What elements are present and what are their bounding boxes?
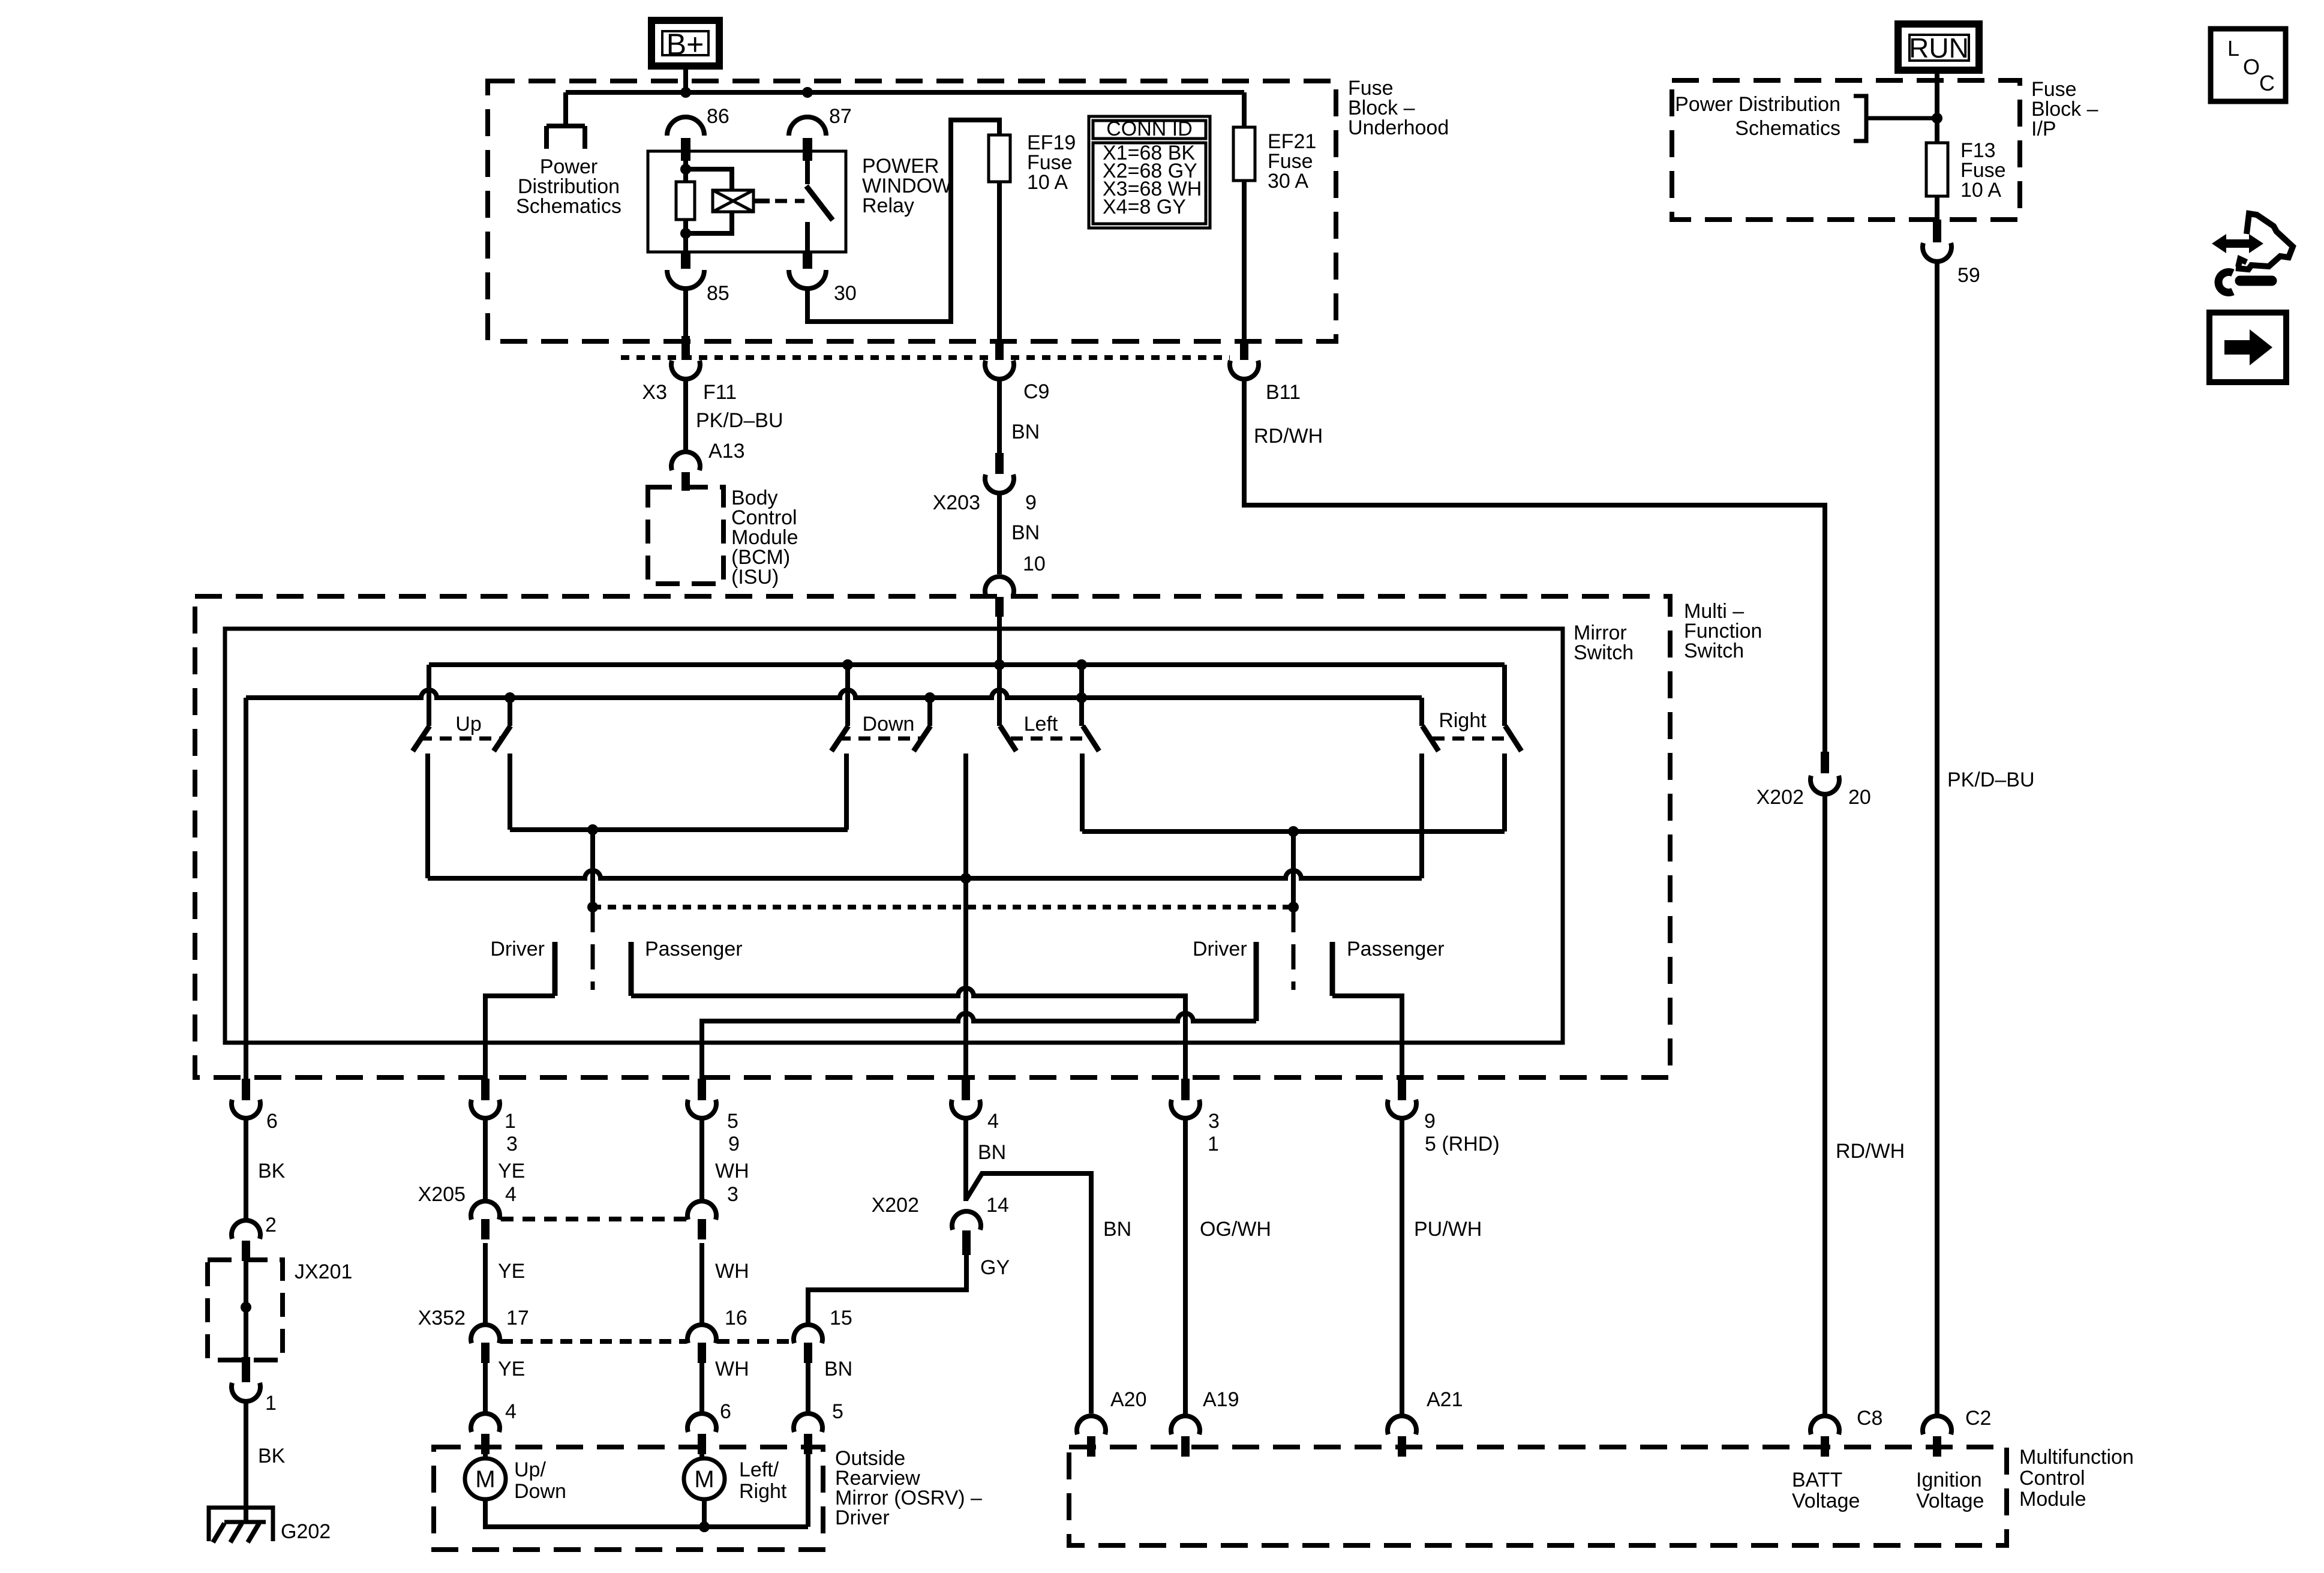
svg-text:Right: Right bbox=[1439, 709, 1487, 732]
wire common bus line lower with hops bbox=[246, 690, 1422, 698]
relay winding symbol bbox=[713, 190, 753, 212]
svg-text:BK: BK bbox=[258, 1160, 286, 1182]
svg-text:Passenger: Passenger bbox=[645, 938, 743, 960]
node motor common junction bbox=[699, 1521, 710, 1532]
svg-text:9: 9 bbox=[1025, 491, 1037, 514]
connector X3 F11 bbox=[681, 336, 690, 360]
connector X203 pin 9 bbox=[995, 453, 1004, 474]
node up-down output junction bbox=[587, 824, 598, 835]
power symbol B+ bbox=[651, 20, 719, 66]
svg-text:Driver: Driver bbox=[835, 1506, 890, 1529]
svg-text:BN: BN bbox=[1011, 521, 1040, 544]
wire JX201 to ground BK bbox=[244, 1401, 248, 1522]
connector C9 bbox=[995, 339, 1004, 360]
fuse block underhood dashed box bbox=[488, 81, 1336, 341]
wire driver 1 stub to pin 1 bbox=[553, 942, 558, 996]
svg-text:Multifunction: Multifunction bbox=[2019, 1446, 2134, 1469]
svg-text:10 A: 10 A bbox=[1960, 179, 2001, 202]
svg-text:PK/D–BU: PK/D–BU bbox=[1947, 769, 2035, 791]
svg-text:30: 30 bbox=[834, 282, 857, 305]
svg-text:BK: BK bbox=[258, 1445, 286, 1467]
svg-text:X4=8 GY: X4=8 GY bbox=[1103, 196, 1186, 218]
wire fuse EF19 to C9 bbox=[997, 182, 1002, 339]
wire left-right output drop bbox=[1291, 831, 1296, 907]
svg-text:(ISU): (ISU) bbox=[731, 566, 779, 589]
svg-text:O: O bbox=[2243, 55, 2260, 79]
svg-text:Schematics: Schematics bbox=[1735, 117, 1840, 140]
svg-text:C: C bbox=[2259, 71, 2275, 95]
svg-text:BATT: BATT bbox=[1792, 1469, 1842, 1491]
fuse F13 bbox=[1926, 143, 1948, 196]
svg-text:YE: YE bbox=[498, 1160, 525, 1182]
wire YE mid bbox=[483, 1243, 488, 1326]
wire left-right output tie bbox=[1082, 829, 1505, 834]
wire pin4 BN bbox=[963, 1118, 968, 1201]
wire relay coil bbox=[683, 151, 688, 252]
connector B11 bbox=[1240, 339, 1248, 360]
svg-text:B+: B+ bbox=[666, 28, 704, 61]
connector pin 1 bbox=[481, 1079, 490, 1100]
svg-text:X352: X352 bbox=[418, 1307, 466, 1329]
svg-text:1: 1 bbox=[505, 1110, 516, 1133]
icon double arrow bbox=[2212, 234, 2263, 253]
svg-text:C8: C8 bbox=[1857, 1407, 1882, 1430]
wire pin5 WH upper bbox=[699, 1118, 704, 1202]
wire driver 2 stub to pin 5 bbox=[1254, 942, 1259, 1021]
wire WH mid bbox=[699, 1243, 704, 1326]
svg-text:PK/D–BU: PK/D–BU bbox=[696, 409, 783, 432]
switch Up left contact bbox=[427, 665, 431, 726]
wire passenger 2 stub to pin 9 bbox=[1330, 942, 1335, 996]
wire power distribution branch bbox=[547, 92, 585, 149]
svg-text:Down: Down bbox=[863, 713, 915, 736]
svg-text:X205: X205 bbox=[418, 1183, 466, 1206]
wire ground side left bbox=[244, 698, 248, 1079]
wire through JX201 bbox=[244, 1261, 248, 1357]
svg-text:Switch: Switch bbox=[1684, 640, 1744, 662]
svg-text:YE: YE bbox=[498, 1358, 525, 1380]
svg-text:PU/WH: PU/WH bbox=[1414, 1218, 1482, 1241]
switch Left link bbox=[1011, 737, 1090, 741]
wire fuse EF21 to B11 bbox=[1242, 181, 1247, 339]
svg-text:Passenger: Passenger bbox=[1347, 938, 1445, 960]
svg-text:G202: G202 bbox=[281, 1520, 331, 1543]
reference bracket bbox=[1854, 96, 1866, 141]
svg-text:YE: YE bbox=[498, 1260, 525, 1283]
connector X202 pin 20 bbox=[1821, 752, 1829, 773]
svg-text:X202: X202 bbox=[872, 1194, 919, 1217]
connector 59 bbox=[1933, 220, 1941, 242]
switch Down left contact bbox=[845, 665, 850, 726]
multi-function switch dashed box bbox=[195, 596, 1670, 1077]
svg-text:WH: WH bbox=[715, 1358, 749, 1380]
svg-text:BN: BN bbox=[1011, 421, 1040, 443]
svg-text:Driver: Driver bbox=[490, 938, 545, 960]
body control module dashed box bbox=[648, 487, 723, 584]
switch Down link bbox=[839, 737, 921, 741]
node bus junction 86 bbox=[680, 87, 691, 98]
connector row dashed X352 bbox=[501, 1339, 686, 1344]
relay K power window box bbox=[648, 151, 846, 252]
wire WH lower bbox=[699, 1363, 704, 1414]
wire pin1 YE upper bbox=[483, 1118, 488, 1202]
svg-text:6: 6 bbox=[266, 1110, 278, 1133]
svg-text:I/P: I/P bbox=[2031, 118, 2056, 140]
svg-text:BN: BN bbox=[1103, 1218, 1131, 1241]
relay switch contact bbox=[805, 151, 810, 184]
svg-text:GY: GY bbox=[980, 1256, 1010, 1279]
fuse EF21 bbox=[1233, 127, 1255, 181]
svg-text:Down: Down bbox=[514, 1480, 566, 1503]
svg-text:C9: C9 bbox=[1023, 380, 1049, 403]
connector JX201 pin 1 bbox=[242, 1357, 250, 1382]
wire pin 10 riser bbox=[997, 617, 1002, 665]
svg-text:WH: WH bbox=[715, 1160, 749, 1182]
switch Down right contact bbox=[927, 698, 932, 726]
connector row dotted line X3-C9-B11 bbox=[621, 355, 1230, 360]
motor left-right bbox=[684, 1458, 725, 1499]
icon arrow box bbox=[2209, 313, 2286, 382]
switch Left right contact bbox=[1079, 665, 1084, 726]
svg-text:Voltage: Voltage bbox=[1792, 1490, 1860, 1512]
svg-text:3: 3 bbox=[1208, 1110, 1220, 1133]
connector pin 4 bbox=[962, 1079, 970, 1100]
svg-text:RD/WH: RD/WH bbox=[1836, 1140, 1905, 1163]
node bus junction 87 bbox=[802, 87, 813, 98]
svg-text:RD/WH: RD/WH bbox=[1254, 425, 1323, 448]
connector relay pin 85 bbox=[681, 252, 690, 269]
mirror switch box bbox=[225, 629, 1563, 1043]
svg-text:Left/: Left/ bbox=[739, 1458, 779, 1481]
svg-text:Ignition: Ignition bbox=[1916, 1469, 1982, 1491]
svg-text:JX201: JX201 bbox=[295, 1260, 352, 1283]
wire X203 to mirror switch pin 10 bbox=[997, 493, 1002, 574]
outside rearview mirror dashed box bbox=[434, 1447, 823, 1550]
svg-text:Power Distribution: Power Distribution bbox=[1675, 93, 1840, 116]
wire GY to X352-15 bbox=[808, 1255, 966, 1326]
svg-text:X202: X202 bbox=[1756, 786, 1804, 809]
node left-right output junction bbox=[1288, 826, 1299, 837]
svg-text:WH: WH bbox=[715, 1260, 749, 1283]
wire branch BN to A20 bbox=[966, 1173, 1091, 1413]
svg-text:Up/: Up/ bbox=[514, 1458, 546, 1481]
svg-text:A21: A21 bbox=[1427, 1388, 1463, 1411]
svg-text:4: 4 bbox=[505, 1400, 517, 1423]
svg-text:9: 9 bbox=[728, 1133, 740, 1155]
svg-text:5 (RHD): 5 (RHD) bbox=[1425, 1133, 1500, 1155]
connector pin 3 bbox=[1181, 1079, 1190, 1100]
svg-text:1: 1 bbox=[1208, 1133, 1219, 1155]
wire center shared contact bbox=[963, 754, 968, 878]
svg-text:M: M bbox=[694, 1466, 714, 1493]
svg-text:Schematics: Schematics bbox=[516, 195, 621, 218]
wire motor outputs common bbox=[485, 1499, 808, 1527]
svg-text:L: L bbox=[2227, 36, 2239, 61]
wire relay 30 to fuse EF19 bbox=[807, 120, 999, 322]
svg-text:15: 15 bbox=[830, 1307, 852, 1329]
wire into left-right motor bbox=[699, 1454, 704, 1459]
wire passenger 1 stub to pin 3 bbox=[629, 942, 634, 996]
node common bus junctions bbox=[505, 692, 515, 703]
node bracket junction bbox=[1932, 113, 1942, 124]
svg-text:Up: Up bbox=[455, 713, 481, 736]
wire feed bus line upper bbox=[429, 662, 1505, 667]
svg-text:86: 86 bbox=[707, 105, 729, 128]
wire pin9 PU/WH bbox=[1400, 1118, 1404, 1416]
svg-text:BN: BN bbox=[978, 1141, 1006, 1164]
wire B11 to X202-20 bbox=[1244, 379, 1825, 753]
wire X202-20 to C8 RD/WH bbox=[1822, 794, 1827, 1416]
svg-text:A20: A20 bbox=[1110, 1388, 1147, 1411]
svg-text:F11: F11 bbox=[703, 381, 737, 404]
svg-text:RUN: RUN bbox=[1909, 32, 1969, 64]
relay coil resistor bbox=[676, 182, 695, 220]
connector pin 5 bbox=[698, 1079, 706, 1100]
svg-text:14: 14 bbox=[986, 1194, 1009, 1217]
svg-text:Driver: Driver bbox=[1193, 938, 1247, 960]
icon wrench bbox=[2240, 276, 2272, 286]
svg-text:Switch: Switch bbox=[1574, 641, 1634, 664]
svg-text:3: 3 bbox=[506, 1133, 518, 1155]
svg-text:10: 10 bbox=[1023, 553, 1046, 575]
fuse EF19 bbox=[989, 135, 1010, 182]
svg-text:Control: Control bbox=[2019, 1467, 2085, 1490]
svg-text:9: 9 bbox=[1424, 1110, 1436, 1133]
switch Up link bbox=[420, 737, 503, 741]
switch Up right contact bbox=[508, 698, 512, 726]
wire OSRV pin5 to motor common bbox=[806, 1454, 810, 1527]
connector pin 9 bbox=[1398, 1079, 1406, 1100]
wire bus to fuse EF21 bbox=[1242, 92, 1247, 127]
svg-text:4: 4 bbox=[987, 1110, 999, 1133]
wire into up-down motor bbox=[483, 1454, 488, 1459]
wire dashed stub driver-passenger 1 bbox=[591, 907, 595, 990]
table CONN ID bbox=[1089, 116, 1210, 228]
svg-text:59: 59 bbox=[1957, 264, 1980, 287]
svg-text:Module: Module bbox=[2019, 1488, 2086, 1511]
svg-text:CONN ID: CONN ID bbox=[1106, 118, 1193, 140]
svg-text:5: 5 bbox=[727, 1110, 738, 1133]
relay winding branch bbox=[686, 169, 732, 233]
power symbol RUN bbox=[1898, 24, 1979, 70]
wire X3 to A13 bbox=[683, 379, 688, 451]
connector relay pin 30 bbox=[803, 252, 812, 269]
wire dotted select line bbox=[593, 905, 1293, 909]
wire up-down output tie bbox=[510, 827, 848, 832]
svg-text:3: 3 bbox=[727, 1183, 738, 1206]
svg-text:A19: A19 bbox=[1203, 1388, 1239, 1411]
svg-text:10 A: 10 A bbox=[1027, 171, 1068, 194]
svg-text:5: 5 bbox=[832, 1400, 843, 1423]
wire C9 to X203 bbox=[997, 379, 1002, 453]
svg-text:Left: Left bbox=[1024, 713, 1058, 736]
svg-text:30 A: 30 A bbox=[1268, 170, 1308, 193]
svg-text:Right: Right bbox=[739, 1480, 787, 1503]
wire F13 down bbox=[1935, 196, 1939, 220]
icon hood outline bbox=[2236, 214, 2293, 269]
svg-text:6: 6 bbox=[720, 1400, 731, 1423]
svg-text:Relay: Relay bbox=[862, 194, 914, 217]
svg-text:1: 1 bbox=[265, 1392, 277, 1415]
svg-text:B11: B11 bbox=[1266, 381, 1301, 404]
svg-text:Underhood: Underhood bbox=[1348, 116, 1449, 139]
icon LOC box bbox=[2211, 29, 2286, 101]
svg-text:20: 20 bbox=[1848, 786, 1871, 809]
svg-text:A13: A13 bbox=[708, 440, 745, 463]
svg-text:2: 2 bbox=[265, 1214, 277, 1236]
svg-text:Voltage: Voltage bbox=[1916, 1490, 1984, 1512]
wire up-down output drop bbox=[590, 830, 595, 907]
svg-text:X203: X203 bbox=[933, 491, 980, 514]
switch Left left contact bbox=[997, 665, 1002, 726]
svg-text:M: M bbox=[475, 1466, 495, 1493]
svg-text:BN: BN bbox=[824, 1358, 852, 1380]
svg-text:X3: X3 bbox=[642, 381, 667, 404]
wire winding to switch bbox=[753, 199, 770, 203]
wire pin6 BK bbox=[244, 1118, 248, 1220]
motor up-down bbox=[465, 1458, 506, 1499]
connector relay pin 86 bbox=[667, 117, 704, 136]
wire pin4 column upper bbox=[963, 878, 968, 1079]
multifunction control module dashed box bbox=[1069, 1447, 2007, 1545]
wire YE lower bbox=[483, 1363, 488, 1414]
svg-text:87: 87 bbox=[829, 105, 852, 128]
connector pin 6 bbox=[242, 1079, 250, 1100]
connector row dashed X205 bbox=[501, 1217, 686, 1221]
junction block JX201 dashed box bbox=[208, 1260, 283, 1360]
svg-text:OG/WH: OG/WH bbox=[1200, 1218, 1271, 1241]
node common to pin4 junction bbox=[960, 873, 971, 884]
wire B+ feed bus bbox=[683, 66, 688, 92]
wire pin3 OG/WH bbox=[1183, 1118, 1188, 1416]
switch Right left contact bbox=[1419, 698, 1424, 726]
wire relay 85 to X3 bbox=[683, 289, 688, 336]
wire left-right motor to common bbox=[702, 1499, 707, 1527]
wire RUN to fuse F13 bbox=[1935, 70, 1939, 143]
switch Right link bbox=[1433, 737, 1512, 741]
svg-text:85: 85 bbox=[707, 282, 729, 305]
wire dashed stub driver-passenger 2 bbox=[1292, 907, 1296, 990]
svg-text:4: 4 bbox=[505, 1183, 517, 1206]
wire mirror common line with hops bbox=[428, 870, 1422, 878]
wire PK/D-BU ignition bbox=[1935, 262, 1939, 1416]
connector relay pin 87 bbox=[789, 117, 826, 136]
ground G202 bbox=[209, 1508, 273, 1541]
fuse block IP dashed box bbox=[1672, 80, 2020, 220]
svg-text:C2: C2 bbox=[1965, 1407, 1991, 1430]
svg-text:17: 17 bbox=[506, 1307, 529, 1329]
svg-text:16: 16 bbox=[725, 1307, 747, 1329]
node feed bus junctions bbox=[842, 659, 853, 670]
switch Right right contact bbox=[1502, 665, 1507, 726]
